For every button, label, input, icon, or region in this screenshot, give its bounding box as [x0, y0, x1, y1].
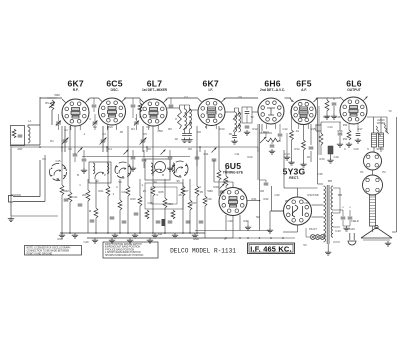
svg-text:C19: C19	[334, 155, 339, 159]
svg-text:C0: C0	[42, 157, 46, 161]
svg-text:C35: C35	[318, 172, 323, 176]
svg-text:T2: T2	[388, 109, 392, 113]
svg-text:L SHORT WAVE BAND POSITION: L SHORT WAVE BAND POSITION	[105, 251, 141, 254]
svg-text:C33: C33	[275, 193, 280, 197]
svg-text:R29: R29	[214, 185, 219, 189]
svg-text:B: B	[77, 173, 79, 177]
svg-text:R18: R18	[324, 115, 329, 119]
svg-text:C27: C27	[184, 189, 189, 193]
svg-text:C14: C14	[328, 125, 333, 129]
svg-text:C11: C11	[235, 152, 240, 156]
svg-text:C40: C40	[84, 240, 89, 244]
svg-text:25M: 25M	[157, 129, 163, 133]
svg-text:B BROADCAST BAND POSITION: B BROADCAST BAND POSITION	[105, 246, 140, 249]
svg-text:S4: S4	[153, 180, 157, 184]
svg-text:PRI: PRI	[338, 193, 343, 197]
svg-text:6.3V: 6.3V	[335, 229, 341, 233]
svg-text:1 MEG: 1 MEG	[261, 130, 269, 134]
svg-text:A.F.: A.F.	[301, 88, 307, 92]
svg-text:GND: GND	[193, 237, 199, 241]
svg-text:C1: C1	[64, 128, 68, 132]
svg-text:25: 25	[179, 193, 182, 197]
svg-text:110V: 110V	[349, 227, 355, 231]
svg-text:C8: C8	[197, 130, 201, 134]
svg-text:C2: C2	[68, 147, 72, 151]
svg-text:I.F. 465 KC.: I.F. 465 KC.	[250, 244, 291, 253]
svg-text:X: X	[224, 237, 226, 241]
svg-text:C21: C21	[73, 195, 78, 199]
svg-text:R.F.: R.F.	[73, 88, 79, 92]
svg-text:R12: R12	[253, 127, 258, 131]
svg-text:C23: C23	[122, 190, 127, 194]
svg-text:PHONO: PHONO	[11, 193, 21, 197]
svg-text:R16: R16	[338, 129, 343, 133]
svg-text:5V: 5V	[303, 243, 306, 247]
svg-text:SW: SW	[158, 232, 163, 236]
svg-text:C30: C30	[228, 219, 233, 223]
svg-text:DELCO MODEL R-1131: DELCO MODEL R-1131	[170, 247, 236, 254]
svg-text:R31: R31	[252, 197, 257, 201]
svg-text:8 MF: 8 MF	[313, 193, 319, 197]
svg-text:.05: .05	[199, 190, 203, 194]
svg-text:C7: C7	[184, 95, 188, 99]
svg-text:R32: R32	[264, 197, 269, 201]
svg-text:R4: R4	[131, 127, 135, 131]
svg-text:C13: C13	[285, 152, 290, 156]
svg-text:L1: L1	[29, 119, 32, 123]
svg-text:2nd DET.–A.V.C.: 2nd DET.–A.V.C.	[260, 88, 285, 92]
svg-text:C36: C36	[304, 201, 309, 205]
svg-text:C9: C9	[238, 95, 242, 99]
svg-text:R14: R14	[295, 147, 300, 151]
svg-text:R27: R27	[192, 201, 197, 205]
svg-text:R21: R21	[99, 189, 104, 193]
svg-text:P POLICE BAND POSITION: P POLICE BAND POSITION	[105, 248, 135, 251]
svg-text:RECT.: RECT.	[289, 176, 299, 180]
svg-text:C3: C3	[102, 132, 106, 136]
svg-text:PRI: PRI	[328, 179, 333, 183]
svg-text:SPKR: SPKR	[376, 147, 383, 151]
svg-text:C20: C20	[354, 147, 359, 151]
svg-text:I.F.: I.F.	[208, 88, 212, 92]
svg-text:.02: .02	[222, 179, 226, 183]
svg-text:.02: .02	[174, 137, 178, 141]
svg-text:S2: S2	[95, 179, 99, 183]
svg-text:T2: T2	[250, 115, 254, 119]
svg-text:50M: 50M	[207, 189, 213, 193]
svg-text:R30: R30	[244, 219, 249, 223]
svg-text:50M: 50M	[54, 93, 60, 97]
svg-text:R8: R8	[188, 147, 192, 151]
svg-text:ANT: ANT	[17, 147, 23, 151]
svg-text:R15: R15	[311, 127, 316, 131]
svg-text:C: C	[344, 147, 346, 151]
svg-text:70M: 70M	[167, 202, 173, 206]
svg-text:C31: C31	[238, 187, 243, 191]
svg-text:SHOWN IN BROADCAST POSITION: SHOWN IN BROADCAST POSITION	[105, 254, 144, 257]
svg-text:R40: R40	[58, 237, 63, 241]
svg-text:250: 250	[343, 137, 348, 141]
svg-text:C5: C5	[146, 125, 150, 129]
svg-text:R10: R10	[220, 127, 225, 131]
svg-text:.05: .05	[119, 130, 123, 134]
svg-text:C29: C29	[207, 197, 212, 201]
svg-text:C12: C12	[283, 127, 288, 131]
svg-text:50M: 50M	[63, 189, 69, 193]
svg-text:R19: R19	[320, 157, 325, 161]
svg-text:C4: C4	[108, 147, 112, 151]
svg-text:PILOT: PILOT	[309, 227, 317, 231]
svg-text:R9: R9	[45, 101, 49, 105]
svg-text:S1: S1	[56, 177, 60, 181]
svg-text:R6: R6	[168, 127, 172, 131]
svg-text:.25: .25	[142, 189, 146, 193]
svg-text:OUTPUT: OUTPUT	[347, 88, 361, 92]
svg-text:1st DET.–MIXER: 1st DET.–MIXER	[142, 88, 168, 92]
svg-text:FIRST POSITION RANGE SWITCH: FIRST POSITION RANGE SWITCH	[105, 243, 142, 246]
svg-text:R23: R23	[131, 197, 136, 201]
svg-text:R1: R1	[50, 139, 54, 143]
svg-text:.05: .05	[284, 199, 288, 203]
svg-text:P1: P1	[360, 170, 364, 174]
svg-text:R2: R2	[93, 125, 97, 129]
svg-text:NOTE: LICENSED RCA OSCILLOGRAP: NOTE: LICENSED RCA OSCILLOGRAPH	[27, 247, 71, 250]
svg-text:R11: R11	[204, 152, 209, 156]
svg-text:.01: .01	[295, 129, 299, 133]
svg-text:R13: R13	[248, 155, 253, 159]
svg-text:C15: C15	[56, 159, 61, 163]
svg-text:FIELD: FIELD	[351, 219, 359, 223]
svg-text:250: 250	[343, 123, 348, 127]
svg-text:R25: R25	[159, 190, 164, 194]
svg-text:C5: C5	[143, 132, 147, 136]
svg-text:R: R	[291, 99, 293, 103]
svg-text:.02: .02	[306, 155, 310, 159]
svg-text:S5: S5	[176, 179, 180, 183]
svg-text:C18: C18	[336, 115, 341, 119]
svg-text:S3: S3	[118, 180, 122, 184]
svg-text:POINT X AND GROUND: POINT X AND GROUND	[27, 252, 53, 255]
svg-text:IF: IF	[205, 125, 208, 129]
svg-text:P2: P2	[382, 170, 386, 174]
svg-text:OSC: OSC	[107, 125, 113, 129]
svg-text:OSC.: OSC.	[110, 88, 118, 92]
svg-text:.05: .05	[228, 132, 232, 136]
svg-text:C25: C25	[148, 201, 153, 205]
svg-text:C6: C6	[147, 147, 151, 151]
svg-text:CONNECTION TO BE MADE BETWEEN: CONNECTION TO BE MADE BETWEEN	[27, 250, 70, 253]
svg-text:B: B	[162, 173, 164, 177]
svg-text:P: P	[104, 173, 106, 177]
svg-text:R17: R17	[358, 127, 363, 131]
svg-text:TC: TC	[55, 123, 59, 127]
svg-text:T1: T1	[188, 115, 192, 119]
svg-text:20M: 20M	[315, 123, 321, 127]
